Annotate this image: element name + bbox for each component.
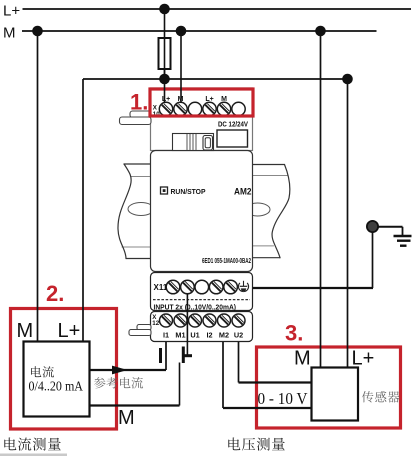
terminal block X11 [151,273,253,311]
terminal X10 pin 3 [188,102,201,115]
wire M rail down to sensor [320,31,322,368]
terminal X11 pin 5 [224,280,238,294]
svg-text:3.: 3. [285,321,303,346]
svg-text:U1: U1 [190,331,199,340]
svg-text:M: M [118,407,135,429]
wire PE terminal to earth [253,287,374,289]
label 传感器 [362,391,374,402]
terminal X11 pin 2 [181,280,195,294]
terminal I1 [160,314,173,327]
terminal X11 pin 4 [209,280,223,294]
svg-text:M: M [3,25,16,42]
caption 电流测量 [4,437,16,450]
dashed separator [153,299,250,301]
wire fuse to terminal L+ [164,69,166,103]
terminal X10 pin 6 [232,102,245,115]
svg-text:L+: L+ [3,3,20,20]
terminal X10 pin 1 [159,102,172,115]
svg-text:M1: M1 [175,331,185,340]
power rail L+ [23,8,412,10]
wire node to ground [378,226,403,228]
expansion connector [173,134,214,151]
fuse F1 [159,38,171,69]
wire L+ rail to fuse [164,9,166,40]
svg-text:M: M [294,348,311,370]
wire transducer to I1 with current arrow [90,369,167,371]
svg-text:I2: I2 [206,331,212,340]
svg-text:M: M [17,320,34,342]
sensor box [312,368,359,421]
svg-text:2.: 2. [46,281,64,306]
DC rectangle [217,130,248,147]
svg-text:AM2: AM2 [234,187,252,197]
svg-text:RUN/STOP: RUN/STOP [171,187,206,196]
current transducer box [24,342,90,417]
terminal U1 [189,314,202,327]
DIN rail left piece [118,164,154,259]
svg-text:L+: L+ [352,348,375,370]
junction node under fuse [159,74,170,85]
wire U2 to sensor [238,342,240,383]
red marker box 2 [11,309,117,430]
terminal block X12 [151,312,253,342]
terminal M2 [218,314,231,327]
wire end ferrule at I1 [159,348,162,363]
wire through fuse to node [164,40,166,79]
module slide latch top [120,111,152,125]
ground symbol [394,236,412,246]
svg-text:INPUT 2x (0..10V/0..20mA): INPUT 2x (0..10V/0..20mA) [154,305,237,312]
terminal X11 pin 3 [195,280,209,294]
wire L+ down to current transducer [82,79,84,342]
svg-text:L+: L+ [205,96,213,103]
svg-text:I1: I1 [163,331,169,340]
wire X11 shield terminal down [186,294,188,355]
svg-text:1.: 1. [130,90,148,115]
power rail M [22,30,377,32]
junction node on M rail (left) [32,26,43,37]
svg-text:0/4..20 mA: 0/4..20 mA [29,380,84,395]
svg-text:U2: U2 [234,331,243,340]
PE terminal symbol [238,281,248,292]
wire L+ distribution horizontal [83,78,348,80]
red marker box 3 [257,347,401,428]
junction node L+ to sensor [342,74,353,85]
wire L+ down to sensor [347,79,349,368]
label 参考电流 [94,377,106,388]
wire M2 to sensor [222,342,224,408]
terminal U2 [232,314,245,327]
svg-text:DC 12/24V: DC 12/24V [218,122,248,129]
junction node on M rail (module) [176,26,187,37]
module face [151,151,253,272]
terminal X11 pin 1 [166,280,180,294]
svg-text:M: M [221,96,227,103]
wire M down to current transducer [37,31,39,342]
module slide latch bottom [129,325,151,336]
cropped artifact bottom left [0,454,67,456]
terminal M1 [174,314,187,327]
junction node on M rail (sensor) [315,26,326,37]
DIN rail right piece [245,165,290,258]
svg-text:6ED1 055-1MA00-0BA2: 6ED1 055-1MA00-0BA2 [202,256,251,265]
label 电流 [31,366,41,377]
red marker box 1 [150,89,253,116]
terminal X10 pin 4 [203,102,216,115]
svg-text:L+: L+ [162,96,170,103]
terminal X10 pin 2 [174,102,187,115]
RUN/STOP indicator [161,187,168,194]
module AM2 upper body [151,88,253,151]
terminal I2 [203,314,216,327]
wire M rail to terminal M [180,31,182,103]
svg-text:12: 12 [152,320,159,327]
svg-text:0 - 10 V: 0 - 10 V [258,389,309,408]
junction node on L+ rail [159,4,170,15]
svg-text:L+: L+ [58,320,81,342]
earth node [367,221,378,232]
wire end ferrule at M1 [182,347,185,364]
terminal X10 pin 5 [217,102,230,115]
svg-text:M2: M2 [219,331,229,340]
caption 电压测量 [228,437,240,450]
wire transducer M return [90,404,180,406]
